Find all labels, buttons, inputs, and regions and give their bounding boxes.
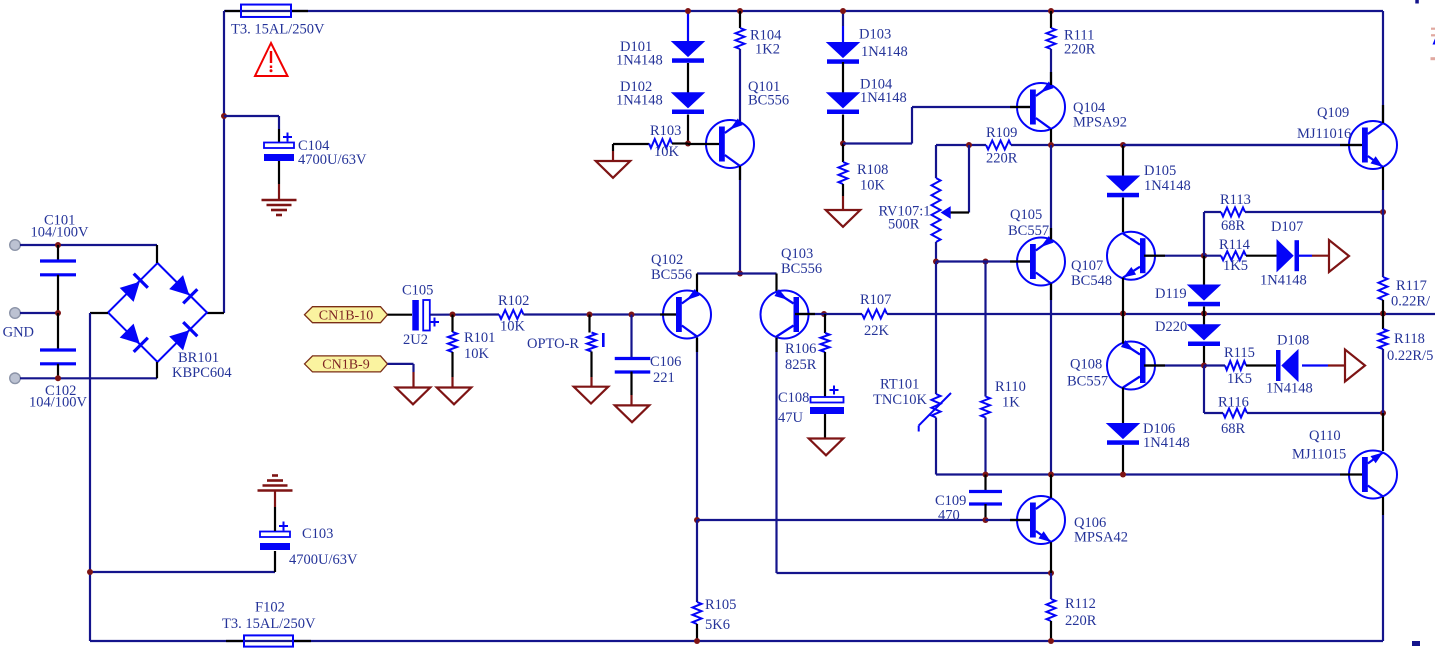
svg-text:BC556: BC556 [781,261,822,277]
svg-text:221: 221 [653,370,675,386]
svg-text:68R: 68R [1221,218,1246,234]
svg-text:RT101: RT101 [880,377,919,393]
svg-text:2U2: 2U2 [403,332,428,348]
svg-text:500R: 500R [888,217,920,233]
svg-text:22K: 22K [864,323,890,339]
svg-text:R102: R102 [498,293,529,309]
svg-text:R108: R108 [857,162,888,178]
svg-text:1K: 1K [1002,395,1020,411]
svg-text:R106: R106 [785,341,816,357]
svg-text:BC556: BC556 [651,267,692,283]
svg-text:C103: C103 [302,526,333,542]
svg-text:Q107: Q107 [1071,258,1103,274]
svg-text:1N4148: 1N4148 [616,53,663,69]
svg-text:1K2: 1K2 [755,42,780,58]
svg-text:0.22R/: 0.22R/ [1391,294,1431,310]
svg-text:BC556: BC556 [748,93,789,109]
svg-text:T3. 15AL/250V: T3. 15AL/250V [231,22,325,38]
svg-text:R101: R101 [464,330,495,346]
svg-text:10K: 10K [654,144,680,160]
svg-text:BC557: BC557 [1067,374,1108,390]
svg-text:R107: R107 [860,292,891,308]
svg-text:R116: R116 [1218,395,1249,411]
svg-text:CN1B-9: CN1B-9 [322,358,369,373]
svg-text:Q109: Q109 [1317,105,1349,121]
svg-text:1N4148: 1N4148 [616,93,663,109]
svg-text:GND: GND [3,325,34,341]
svg-text:220R: 220R [986,151,1018,167]
svg-text:47U: 47U [778,410,804,426]
svg-text:D220: D220 [1155,319,1187,335]
svg-text:4700U/63V: 4700U/63V [298,152,367,168]
svg-text:Q102: Q102 [651,252,683,268]
svg-text:BR101: BR101 [178,350,219,366]
svg-text:D103: D103 [859,27,891,43]
svg-text:10K: 10K [860,178,886,194]
svg-text:Q103: Q103 [781,246,813,262]
svg-text:D105: D105 [1144,163,1176,179]
svg-text:CN1B-10: CN1B-10 [319,308,373,323]
svg-text:1N4148: 1N4148 [1260,273,1307,289]
svg-text:D119: D119 [1155,286,1187,302]
svg-text:0.22R/5: 0.22R/5 [1387,348,1433,364]
svg-text:10K: 10K [500,319,526,335]
svg-text:TNC10K: TNC10K [873,392,928,408]
svg-text:R110: R110 [995,379,1026,395]
svg-text:Q108: Q108 [1070,357,1102,373]
svg-text:T3. 15AL/250V: T3. 15AL/250V [222,616,316,632]
svg-text:220R: 220R [1065,613,1097,629]
svg-text:1N4148: 1N4148 [1144,178,1191,194]
svg-text:1N4148: 1N4148 [1143,435,1190,451]
svg-text:1K5: 1K5 [1223,258,1248,274]
svg-text:470: 470 [938,508,960,524]
svg-text:R105: R105 [705,597,736,613]
svg-text:104/100V: 104/100V [31,225,90,241]
svg-text:R114: R114 [1219,237,1251,253]
svg-text:R113: R113 [1220,192,1251,208]
svg-text:104/100V: 104/100V [29,395,88,411]
svg-text:BC548: BC548 [1071,273,1112,289]
svg-text:C105: C105 [402,283,433,299]
svg-text:MPSA92: MPSA92 [1073,115,1127,131]
svg-text:R115: R115 [1224,345,1255,361]
svg-text:OPTO-R: OPTO-R [527,336,579,352]
svg-text:R112: R112 [1065,596,1096,612]
svg-text:1K5: 1K5 [1227,371,1252,387]
svg-text:5K6: 5K6 [705,617,730,633]
svg-text:C108: C108 [778,390,809,406]
svg-text:C106: C106 [650,354,681,370]
svg-text:Q110: Q110 [1309,428,1341,444]
svg-text:220R: 220R [1064,42,1096,58]
svg-text:4700U/63V: 4700U/63V [289,552,358,568]
svg-text:68R: 68R [1221,421,1246,437]
svg-text:Q105: Q105 [1010,207,1042,223]
svg-text:R117: R117 [1396,278,1427,294]
svg-text:1N4148: 1N4148 [860,90,907,106]
svg-text:MPSA42: MPSA42 [1074,530,1128,546]
svg-text:825R: 825R [785,357,817,373]
svg-text:10K: 10K [464,346,490,362]
svg-text:KBPC604: KBPC604 [172,365,232,381]
svg-text:R109: R109 [986,125,1017,141]
svg-text:BC557: BC557 [1008,223,1049,239]
svg-text:MJ11016: MJ11016 [1297,126,1351,142]
svg-text:D107: D107 [1271,219,1303,235]
svg-text:R118: R118 [1394,331,1425,347]
svg-text:R103: R103 [650,123,681,139]
svg-text:D108: D108 [1277,333,1309,349]
svg-text:1N4148: 1N4148 [861,44,908,60]
svg-text:F102: F102 [255,600,285,616]
svg-text:1N4148: 1N4148 [1266,381,1313,397]
svg-text:MJ11015: MJ11015 [1292,447,1346,463]
